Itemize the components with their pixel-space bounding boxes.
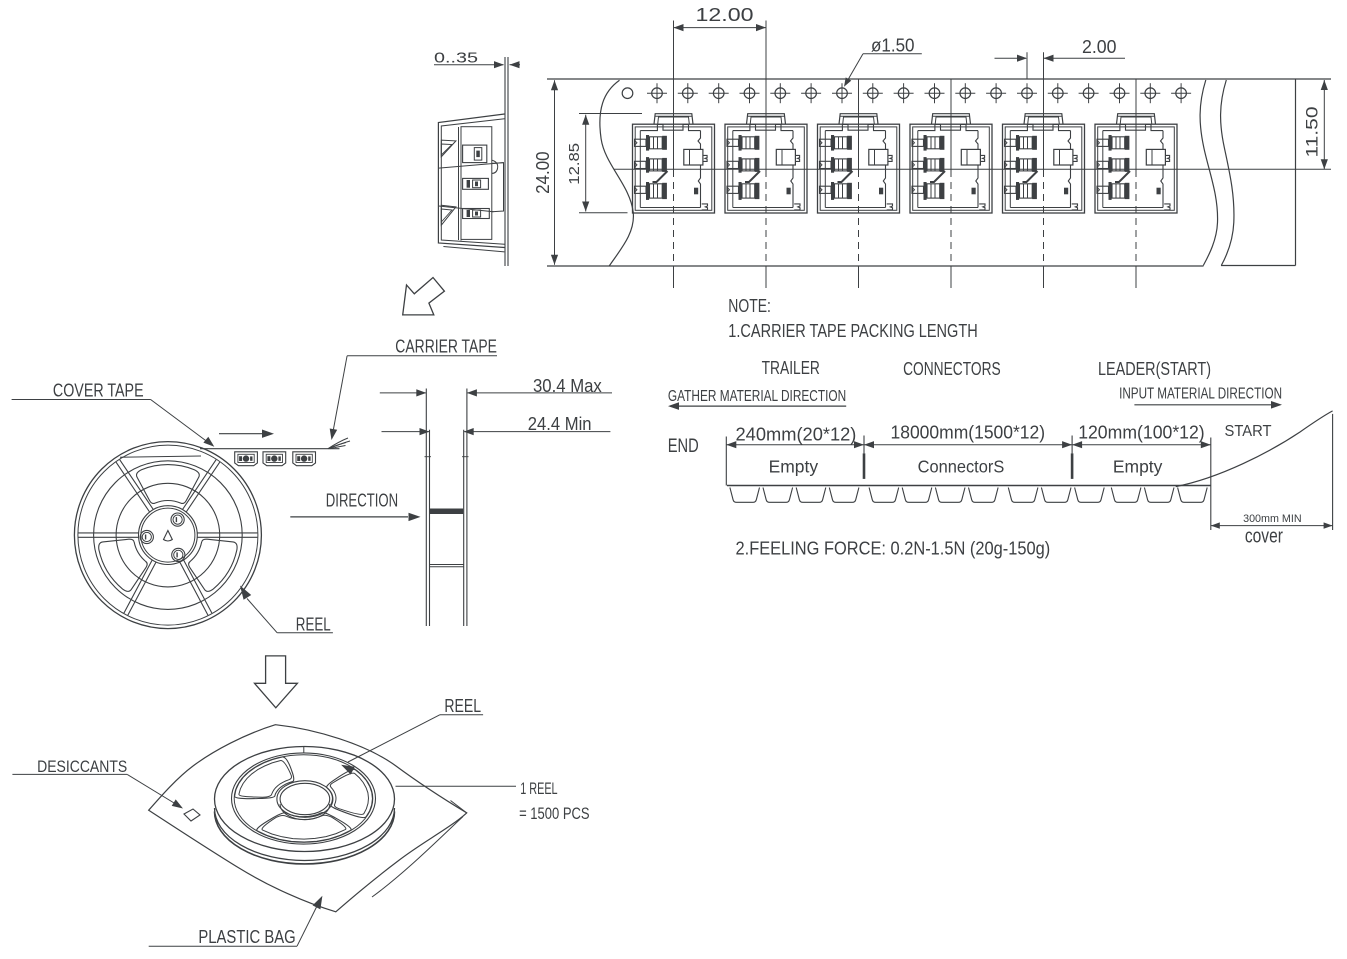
carrier tape strip: bottom edge right of break: [1221, 265, 1296, 267]
lobe top-left: [235, 757, 294, 799]
svg-text:24.4 Min: 24.4 Min: [528, 414, 592, 434]
svg-text:= 1500 PCS: = 1500 PCS: [519, 804, 590, 823]
side view: tape strip edge-on: [504, 57, 506, 266]
plastic bag outline: [149, 725, 467, 912]
svg-text:COVER TAPE: COVER TAPE: [53, 380, 144, 400]
svg-text:11.50: 11.50: [1303, 107, 1322, 158]
3D reel flange inner ellipses: [232, 753, 376, 844]
side view: right latch bump: [492, 160, 498, 173]
cover tape peel curl: [328, 443, 346, 449]
svg-text:CONNECTORS: CONNECTORS: [903, 359, 1001, 379]
3D reel hub ellipses: [277, 781, 333, 818]
side view: pocket inner wall: [460, 127, 462, 241]
bag fold line right corner: [451, 801, 467, 813]
svg-text:ø1.50: ø1.50: [871, 36, 915, 56]
lobe right: [327, 770, 373, 818]
reel front view circles: [74, 442, 261, 629]
carrier tape strip: top edge: [547, 78, 1331, 80]
connector centerlines: [673, 21, 675, 171]
svg-text:300mm MIN: 300mm MIN: [1243, 513, 1302, 525]
svg-text:120mm(100*12): 120mm(100*12): [1078, 423, 1205, 443]
svg-text:240mm(20*12): 240mm(20*12): [736, 424, 857, 444]
svg-text:1 REEL: 1 REEL: [520, 779, 557, 798]
reel section: right flange: [466, 389, 468, 627]
svg-text:INPUT MATERIAL DIRECTION: INPUT MATERIAL DIRECTION: [1119, 386, 1282, 403]
svg-text:Empty: Empty: [1113, 456, 1163, 476]
reel section: flange top ticks: [425, 456, 432, 458]
svg-text:18000mm(1500*12): 18000mm(1500*12): [891, 423, 1046, 443]
side view: right mating panel: [492, 163, 504, 212]
carrier tape right break wave 2: [1221, 80, 1234, 266]
carrier tape left break S-curve: [600, 80, 634, 266]
side view: top-left wedge: [441, 140, 456, 157]
six connectors on tape: [633, 114, 715, 213]
sprocket holes with crosshairs: [647, 83, 667, 103]
reel hub mounting holes: [171, 513, 184, 526]
dimension ticks: [725, 437, 727, 486]
svg-text:Empty: Empty: [769, 456, 819, 476]
svg-text:REEL: REEL: [444, 696, 481, 716]
pocket trapezoids: [730, 488, 760, 503]
svg-text:2.FEELING FORCE: 0.2N-1.5N (2: 2.FEELING FORCE: 0.2N-1.5N (20g-150g): [736, 538, 1051, 559]
leader start curve: [1176, 411, 1333, 487]
tape horizontal centerline: [614, 168, 1331, 170]
svg-text:DESICCANTS: DESICCANTS: [37, 757, 127, 776]
svg-text:2.00: 2.00: [1082, 37, 1117, 57]
lobe bottom: [257, 813, 351, 843]
segment separator bold ticks: [863, 453, 866, 479]
desiccant packet: [184, 809, 200, 821]
tape leaving reel: [200, 448, 340, 450]
svg-text:DIRECTION: DIRECTION: [326, 491, 398, 511]
3D reel side depth arcs: [215, 808, 395, 860]
carrier tape strip: right edge: [1295, 79, 1297, 266]
svg-text:0..35: 0..35: [434, 50, 478, 67]
svg-text:12.00: 12.00: [696, 5, 754, 25]
pocket row baseline: [727, 485, 1211, 487]
svg-text:24.00: 24.00: [533, 151, 553, 194]
svg-text:TRAILER: TRAILER: [762, 358, 820, 378]
side view: terminal box 1: [463, 145, 487, 163]
svg-text:LEADER(START): LEADER(START): [1098, 359, 1211, 379]
svg-text:REEL: REEL: [296, 615, 331, 635]
side view: terminal box 3: [463, 209, 490, 219]
side view: bottom-left wedge: [441, 205, 456, 225]
3D reel top tick: [303, 746, 305, 753]
reel center key mark: [164, 531, 173, 542]
carrier tape strip: bottom edge left of break: [547, 265, 1204, 267]
carrier tape right break wave 1: [1200, 80, 1218, 266]
feed direction arrow above tape: [219, 433, 262, 435]
bag fold line bottom right: [372, 817, 463, 898]
dimension arrowheads: [726, 441, 736, 448]
open arrow pointing down-left: [403, 278, 445, 315]
svg-text:END: END: [668, 436, 699, 457]
side view: slant divider: [439, 163, 504, 169]
svg-text:PLASTIC BAG: PLASTIC BAG: [198, 927, 295, 947]
reel section: left flange: [425, 389, 427, 627]
side view: connector body: [461, 127, 492, 240]
side view: connector pocket profile: [438, 114, 504, 248]
reel section: hub line: [430, 564, 464, 566]
svg-text:ConnectorS: ConnectorS: [918, 456, 1005, 476]
svg-text:GATHER MATERIAL DIRECTION: GATHER MATERIAL DIRECTION: [668, 388, 846, 405]
3D reel outer ellipse: [215, 747, 395, 852]
svg-text:cover: cover: [1245, 526, 1283, 548]
side view: terminal box 2: [463, 178, 489, 189]
start vertical line: [1332, 414, 1334, 530]
packing length dimension line: [726, 444, 1211, 446]
three components hanging on tape: [235, 452, 258, 466]
svg-text:START: START: [1225, 423, 1272, 440]
svg-text:1.CARRIER TAPE PACKING LENGTH: 1.CARRIER TAPE PACKING LENGTH: [728, 320, 977, 341]
svg-text:NOTE:: NOTE:: [728, 295, 771, 316]
svg-text:CARRIER TAPE: CARRIER TAPE: [395, 336, 497, 356]
sprocket hole plain (first): [622, 88, 633, 99]
label 1 REEL = 1500 PCS: [396, 785, 517, 787]
svg-text:12.85: 12.85: [566, 143, 583, 185]
reel spokes: [197, 532, 257, 534]
hollow down arrow: [255, 656, 298, 708]
reel section: tape bar: [430, 509, 463, 515]
3D reel hub side depth: [280, 804, 330, 820]
reel windows: [137, 465, 200, 504]
